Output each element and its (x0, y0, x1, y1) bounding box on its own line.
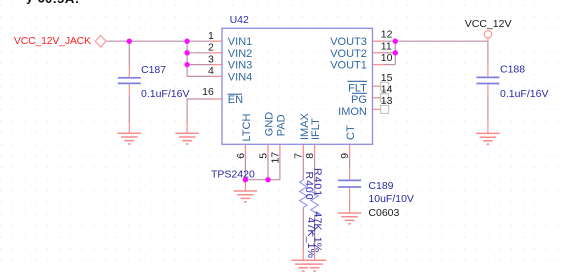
svg-text:12: 12 (381, 29, 393, 41)
ground below C188 (476, 122, 499, 144)
svg-text:C187: C187 (141, 64, 166, 76)
wire C187 to ground (128, 95, 130, 122)
capacitor C188 (476, 77, 499, 83)
svg-text:U42: U42 (230, 14, 249, 26)
svg-text:0.1uF/16V: 0.1uF/16V (141, 88, 189, 100)
pin 4 stub (211, 75, 222, 77)
junction node at VIN bus top (184, 39, 189, 44)
svg-text:11: 11 (381, 40, 392, 52)
svg-text:PG: PG (351, 94, 367, 106)
capacitor C187 (118, 78, 141, 84)
svg-text:47K_1%: 47K_1% (312, 211, 324, 252)
svg-text:10uF/10V: 10uF/10V (368, 193, 414, 205)
svg-text:2: 2 (208, 42, 214, 54)
wire VOUT3 to VCC_12V (384, 40, 488, 42)
wire VOUT1 link (384, 64, 395, 66)
pin 15 stub (373, 85, 381, 87)
wire VOUT2 link (384, 52, 395, 54)
svg-text:C189: C189 (368, 180, 393, 192)
pin 11 stub (373, 52, 385, 54)
pin 8 stub (314, 144, 316, 156)
svg-text:VOUT3: VOUT3 (330, 36, 367, 48)
op-amp U1 placeholder replaced: IC body U42 (222, 28, 373, 144)
svg-text:LTCH: LTCH (241, 114, 253, 142)
wire VCC_12V_JACK net: diamond to pin 1 (106, 40, 211, 42)
cropped note text at top (26, 0, 80, 6)
unconnected pin box 15 (381, 82, 389, 90)
svg-text:GND: GND (264, 112, 276, 137)
svg-text:1: 1 (208, 30, 214, 42)
power symbol VCC_12V circle (484, 31, 491, 38)
pin 13 stub (373, 108, 381, 110)
pin 5 stub (267, 144, 269, 156)
wire LTCH down (244, 156, 246, 180)
pin 6 stub (244, 144, 246, 156)
pin 17 stub (279, 144, 281, 156)
svg-text:TPS2420: TPS2420 (211, 168, 255, 180)
junction node at GND pin 5 (265, 177, 270, 182)
pin 9 stub (349, 144, 351, 156)
svg-text:14: 14 (381, 84, 393, 96)
svg-text:VIN3: VIN3 (228, 60, 252, 72)
wire R400 to ground (302, 208, 304, 249)
svg-text:IMON: IMON (338, 106, 367, 118)
wire C189 to ground (349, 199, 351, 202)
wire to VIN4 (187, 75, 211, 77)
svg-text:13: 13 (381, 95, 393, 107)
svg-text:C188: C188 (500, 64, 525, 76)
pin 7 stub (302, 144, 304, 156)
pin 3 stub (211, 64, 222, 66)
wire GND pin 5 down (267, 156, 269, 180)
pin 14 stub (373, 97, 381, 99)
svg-text:15: 15 (381, 72, 393, 84)
ground below R400 (292, 249, 315, 271)
unconnected pin box 14 (381, 94, 389, 102)
ground below EN (176, 122, 199, 144)
wire to VIN3 (187, 64, 211, 66)
junction node at C187 tap (127, 39, 132, 44)
svg-text:4: 4 (208, 65, 214, 77)
pin 2 stub (211, 52, 222, 54)
svg-text:10: 10 (381, 52, 393, 64)
svg-text:7: 7 (293, 153, 305, 159)
svg-text:8: 8 (304, 153, 316, 159)
wire C188 to ground (487, 95, 489, 122)
svg-text:EN: EN (228, 94, 243, 106)
capacitor C189 (338, 180, 361, 187)
svg-text:VOUT1: VOUT1 (330, 60, 367, 72)
svg-text:VOUT2: VOUT2 (330, 48, 367, 60)
svg-text:0.5A!: 0.5A! (45, 0, 80, 6)
wire IMAX to R400 (302, 156, 304, 180)
unconnected pin box 13 (381, 105, 389, 113)
pin 10 stub (373, 64, 385, 66)
svg-text:5: 5 (257, 153, 269, 159)
wire IFLT to R401 (314, 156, 316, 189)
wire branch down to C187 (128, 41, 130, 66)
svg-text:FLT: FLT (348, 83, 367, 95)
pin 16 stub (211, 98, 222, 100)
pin 1 stub (211, 40, 222, 42)
wire vertical bus to VIN2-VIN4 (186, 41, 188, 76)
wire CT to C189 (349, 156, 351, 169)
svg-text:VCC_12V_JACK: VCC_12V_JACK (14, 35, 91, 47)
wire R401 to ground (314, 217, 316, 249)
junction node at VIN2 (184, 50, 189, 55)
svg-text:0.1uF/16V: 0.1uF/16V (500, 88, 548, 100)
svg-text:IFLT: IFLT (310, 118, 322, 140)
wire to VIN2 (187, 52, 211, 54)
wire gnd bus horizontal (245, 179, 280, 181)
ground below C189 (338, 201, 361, 223)
wire VCC_12V down to C188 (487, 41, 489, 66)
resistor R401 (311, 189, 318, 216)
wire vertical bus VOUT1-VOUT3 (394, 41, 396, 64)
svg-text:PAD: PAD (276, 114, 288, 136)
svg-text:VCC_12V: VCC_12V (465, 18, 512, 30)
svg-text:9: 9 (339, 153, 351, 159)
svg-text:R401: R401 (311, 168, 323, 197)
junction node at VIN3 (184, 62, 189, 67)
svg-text:6: 6 (235, 153, 247, 159)
resistor R400 (300, 180, 307, 208)
svg-text:CT: CT (345, 125, 357, 140)
svg-text:VIN1: VIN1 (228, 36, 252, 48)
ground below R401 (303, 249, 326, 271)
svg-text:y: y (26, 0, 34, 5)
junction node at VOUT3 (393, 39, 398, 44)
ground below C187 (118, 122, 141, 144)
junction node at VOUT2 (393, 50, 398, 55)
svg-text:C0603: C0603 (368, 207, 399, 219)
ground below LTCH/GND bus (234, 180, 257, 202)
svg-text:IMAX: IMAX (299, 112, 311, 140)
svg-text:VIN4: VIN4 (228, 72, 252, 84)
svg-text:16: 16 (202, 86, 214, 98)
wire EN to ground (187, 99, 211, 122)
svg-text:3: 3 (208, 53, 214, 65)
pin 12 stub (373, 40, 385, 42)
junction node at LTCH gnd (243, 177, 248, 182)
wire PAD pin 17 down (279, 156, 281, 180)
svg-text:VIN2: VIN2 (228, 48, 252, 60)
svg-text:17: 17 (269, 152, 281, 164)
port VCC_12V_JACK diamond (95, 35, 106, 47)
